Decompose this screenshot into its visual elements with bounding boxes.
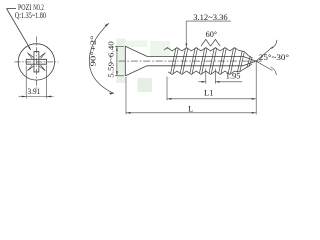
dim 1.95 right extension line <box>214 69 216 84</box>
pozidriv recess bottom wing <box>34 64 39 72</box>
dim 5.59~6.40 dimension line <box>116 46 118 76</box>
dim L1 left arrow <box>167 98 172 100</box>
dim 5.59~6.40 bottom arrow <box>116 71 118 76</box>
front view horizontal centerline <box>15 61 59 63</box>
dim 3.91 left arrow <box>22 96 27 98</box>
leader diagonal line to recess <box>7 9 31 50</box>
green highlight upper shank area <box>150 41 170 56</box>
front view vertical centerline <box>35 37 37 89</box>
60 deg thread profile mark left <box>201 39 211 46</box>
dim 5.59~6.40 top arrow <box>116 46 118 51</box>
svg-text:5.59~6.40: 5.59~6.40 <box>108 41 116 78</box>
pozidriv recess top wing <box>34 52 39 60</box>
svg-text:3.12~3.36: 3.12~3.36 <box>193 13 227 22</box>
tip extension line <box>255 62 257 115</box>
leader arrowhead <box>28 47 31 51</box>
head cone bottom flank <box>125 66 147 76</box>
tip angle upper hook arc <box>271 40 277 49</box>
screw axis centerline (side view) <box>119 60 263 62</box>
green highlight band left of head <box>116 39 125 84</box>
dim 3.91 right arrow <box>47 96 52 98</box>
pozidriv recess center square <box>34 59 39 64</box>
dim L right arrow <box>252 112 257 114</box>
screw head outline circle (front view) <box>18 44 54 80</box>
green highlight square below head <box>138 78 153 92</box>
thread top crest zigzag <box>164 48 239 51</box>
svg-text:L: L <box>188 105 193 114</box>
L1 left extension line (thread start) <box>166 77 168 101</box>
tip taper top line <box>243 56 256 61</box>
dim 5.59~6.40 top extension tick <box>115 45 124 47</box>
dim L1 dimension line <box>167 98 256 100</box>
dim 3.12~3.36 horizontal line <box>186 20 231 22</box>
head face vertical line (side view) <box>124 46 126 76</box>
shank/root bottom line <box>147 65 243 67</box>
thread flank diagonals <box>171 49 252 74</box>
dim 3.12~3.36 leader vertical with arrow <box>185 21 187 46</box>
dim L1 right arrow <box>252 98 257 100</box>
pozidriv diagonal tick lower-right <box>39 65 45 71</box>
L left extension line (head face) <box>125 77 127 114</box>
dim L dimension line <box>126 112 256 114</box>
angle 90 deg dimension arc <box>89 23 114 93</box>
svg-text:60°: 60° <box>206 30 218 39</box>
svg-text:L1: L1 <box>204 89 214 98</box>
dim 1.95 left tail line <box>198 81 206 83</box>
pozidriv recess right wing <box>39 59 47 64</box>
angle 90 deg arc bottom arrow <box>109 93 113 95</box>
thread bottom crest zigzag <box>168 71 239 74</box>
pozidriv diagonal tick upper-left <box>27 53 33 59</box>
shank/root top line <box>147 55 243 57</box>
dim L left arrow <box>126 112 131 114</box>
leader shoulder line for POZI label <box>7 8 17 10</box>
tip angle lower extension line <box>256 61 273 70</box>
dim 1.95 right tail line under text <box>215 81 242 83</box>
svg-text:3.91: 3.91 <box>28 87 41 96</box>
dim 1.95 left arrow <box>202 81 206 83</box>
tip angle lower hook arc <box>271 67 277 75</box>
green tint above head cone <box>126 41 148 48</box>
pozidriv diagonal tick lower-left <box>27 65 33 71</box>
svg-text:1.95: 1.95 <box>226 72 241 81</box>
svg-text:90°+2°: 90°+2° <box>90 35 98 66</box>
dim 3.91 dimension line <box>19 96 54 98</box>
dim 3.91 right extension line <box>46 66 48 99</box>
thread bottom crest on taper <box>239 64 252 72</box>
pozidriv diagonal tick upper-right <box>39 53 45 59</box>
svg-text:25°~30°: 25°~30° <box>259 53 289 62</box>
thread top crest on taper <box>239 50 253 58</box>
tip angle upper extension line <box>256 47 273 62</box>
dim 3.91 left extension line <box>25 66 27 99</box>
pozidriv recess left wing <box>26 59 34 64</box>
dim 3.12~3.36 arrow to crest <box>186 43 188 47</box>
head cone top flank <box>125 46 147 56</box>
svg-text:Q:1.35~1.80: Q:1.35~1.80 <box>15 11 46 20</box>
dim 1.95 right arrow <box>215 81 219 83</box>
60 deg thread profile mark right <box>211 39 221 46</box>
tip taper bottom line <box>243 61 256 66</box>
angle 90 deg arc top arrow <box>105 23 109 26</box>
dim 5.59~6.40 bottom extension tick <box>115 75 124 77</box>
dim 1.95 left extension line <box>205 69 207 84</box>
